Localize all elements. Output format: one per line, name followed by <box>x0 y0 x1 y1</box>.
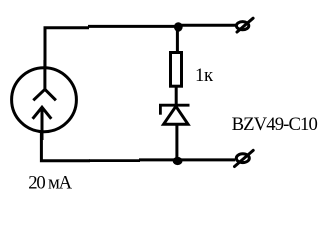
label 20 мА <box>28 172 72 193</box>
svg-text:BZV49-C10: BZV49-C10 <box>232 114 318 135</box>
current source I1 20 мА <box>12 60 77 140</box>
junction top node <box>174 22 183 31</box>
zener diode VD1 BZV49-C10 <box>159 104 190 124</box>
svg-text:1к: 1к <box>195 65 214 86</box>
wire zener bottom lead <box>175 124 178 161</box>
resistor R1 1к <box>171 53 182 87</box>
label BZV49-C10 <box>232 114 318 135</box>
label 1к <box>195 65 214 86</box>
wire top-left segment <box>45 28 89 68</box>
wire bottom middle segment <box>89 158 178 162</box>
svg-text:20 мА: 20 мА <box>28 172 72 193</box>
wire resistor top lead <box>176 26 179 53</box>
wire bottom right segment <box>177 158 235 161</box>
junction bottom node <box>173 157 183 165</box>
terminal output bottom <box>235 150 254 166</box>
wire resistor-zener lead <box>175 86 178 106</box>
terminal output top <box>236 18 253 32</box>
wire top middle segment <box>88 25 179 28</box>
wire top right segment <box>177 24 236 27</box>
wire left bottom lead <box>41 132 90 161</box>
